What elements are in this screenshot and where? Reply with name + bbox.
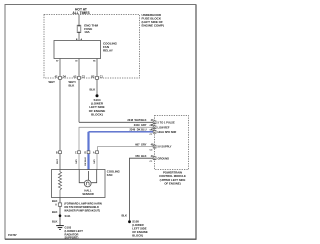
svg-text:2349 GRY: 2349 GRY xyxy=(134,123,147,127)
svg-text:LOW REF: LOW REF xyxy=(158,125,170,129)
svg-text:A: A xyxy=(55,204,57,207)
svg-text:BLK: BLK xyxy=(52,199,58,203)
svg-text:B: B xyxy=(56,151,58,154)
svg-text:G103: G103 xyxy=(65,225,72,229)
svg-text:ALL TIMES: ALL TIMES xyxy=(72,11,90,15)
svg-text:BLOCK): BLOCK) xyxy=(132,234,143,238)
svg-text:HIGH SPD SNR: HIGH SPD SNR xyxy=(158,130,177,134)
svg-text:ENGINE COMP): ENGINE COMP) xyxy=(142,23,164,27)
svg-text:WHT: WHT xyxy=(49,80,56,84)
svg-text:BLK: BLK xyxy=(90,87,96,91)
svg-text:DK BLU: DK BLU xyxy=(85,157,87,166)
svg-text:BLK: BLK xyxy=(52,219,58,223)
svg-text:5V SUPPLY: 5V SUPPLY xyxy=(158,145,172,149)
svg-text:5 TO 1 PULSE: 5 TO 1 PULSE xyxy=(158,120,176,124)
svg-text:WASHER PUMP BREAKOUT): WASHER PUMP BREAKOUT) xyxy=(64,209,100,213)
svg-text:GRY: GRY xyxy=(94,159,96,164)
svg-text:GRY: GRY xyxy=(76,159,78,164)
svg-text:SUPPORT): SUPPORT) xyxy=(65,236,79,240)
svg-text:OF ENGINE): OF ENGINE) xyxy=(164,182,180,186)
svg-text:S111: S111 xyxy=(65,214,71,218)
svg-text:(FORWARD LAMP WRG HARN: (FORWARD LAMP WRG HARN xyxy=(64,202,102,206)
svg-text:BLK: BLK xyxy=(121,214,127,218)
svg-text:667 GRY: 667 GRY xyxy=(135,142,147,146)
svg-text:2348 WHT/BLK: 2348 WHT/BLK xyxy=(127,118,146,122)
svg-text:(LOWER LEFT: (LOWER LEFT xyxy=(65,229,84,233)
svg-text:P1C787: P1C787 xyxy=(8,234,17,237)
svg-text:10A: 10A xyxy=(84,30,90,34)
svg-text:A: A xyxy=(93,151,95,154)
svg-text:SENSOR: SENSOR xyxy=(82,192,93,196)
svg-text:FAN: FAN xyxy=(107,173,113,177)
svg-text:ON T/M FROM WINDSHIELD: ON T/M FROM WINDSHIELD xyxy=(64,205,99,209)
svg-text:GROUND: GROUND xyxy=(158,156,170,160)
svg-text:BLK: BLK xyxy=(52,210,58,214)
svg-text:C: C xyxy=(75,151,77,154)
svg-text:BLOCK): BLOCK) xyxy=(91,112,103,116)
svg-text:RELAY: RELAY xyxy=(103,49,113,53)
svg-text:D: D xyxy=(84,151,86,154)
svg-text:650 BLK: 650 BLK xyxy=(135,154,146,158)
svg-text:BLK: BLK xyxy=(69,84,75,88)
svg-text:2346 DK BLU: 2346 DK BLU xyxy=(129,128,146,132)
svg-text:WHT: WHT xyxy=(57,158,59,164)
